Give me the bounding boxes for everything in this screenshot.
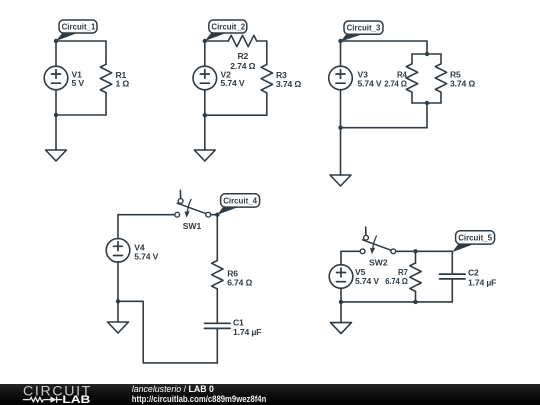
label Circuit_1 [56, 20, 97, 41]
value label C1 [233, 318, 261, 337]
node parallel top circuit 3 [425, 52, 429, 56]
label Circuit_4 [217, 194, 259, 215]
svg-text:1 Ω: 1 Ω [116, 79, 130, 89]
wire right rail circuit 4 [216, 215, 218, 261]
svg-text:Circuit_5: Circuit_5 [458, 233, 492, 243]
svg-text:3.74 Ω: 3.74 Ω [450, 79, 475, 89]
value label R3 [276, 70, 301, 89]
node switch output circuit 4 [215, 213, 219, 217]
resistor R2 [228, 35, 256, 46]
value label C2 [468, 267, 496, 287]
label Circuit_2 [205, 20, 247, 41]
voltage source V3 [329, 41, 353, 128]
svg-text:6.74 Ω: 6.74 Ω [227, 277, 252, 287]
wire bottom rail circuit 1 [56, 114, 106, 116]
wire bottom rail circuit 2 [205, 114, 267, 116]
node parallel bottom circuit 3 [425, 101, 429, 105]
capacitor C1 [205, 323, 231, 328]
wire bottom rail circuit 5 [341, 301, 452, 303]
svg-text:Circuit_4: Circuit_4 [223, 196, 257, 206]
node bottom-left circuit 3 [338, 126, 342, 130]
value label R2 [230, 51, 255, 71]
svg-text:5.74 V: 5.74 V [134, 251, 158, 261]
wire top-left circuit 5 [340, 288, 342, 302]
wire C1 down circuit 4 [216, 328, 218, 363]
svg-text:1.74 µF: 1.74 µF [468, 278, 496, 288]
wire switch to C2 rail circuit 5 [396, 250, 453, 252]
svg-text:3.74 Ω: 3.74 Ω [276, 79, 301, 89]
resistor R6 [212, 261, 223, 289]
svg-text:2.74 Ω: 2.74 Ω [384, 79, 407, 89]
svg-text:5.74 V: 5.74 V [221, 78, 245, 88]
wire right rail top circuit 2 [266, 41, 268, 65]
svg-text:6.74 Ω: 6.74 Ω [385, 276, 408, 286]
value label R4 [384, 70, 407, 89]
ground circuit 1 [46, 115, 67, 161]
value label V4 [134, 242, 158, 261]
svg-text:Circuit_3: Circuit_3 [347, 23, 381, 33]
wire top-left circuit 2 [205, 40, 229, 42]
wire R6 to C1 circuit 4 [216, 289, 218, 323]
logo resistor-diode line [23, 396, 62, 402]
node R7 bottom circuit 5 [413, 300, 417, 304]
svg-text:5.74 V: 5.74 V [355, 276, 379, 286]
wire bottom rail circuit 4 [118, 301, 217, 363]
label Circuit_3 [341, 21, 384, 42]
wire switch to node circuit 4 [211, 214, 218, 216]
wire right feed circuit 3 [426, 41, 428, 54]
value label V2 [221, 70, 245, 89]
ground circuit 2 [194, 115, 215, 161]
svg-text:5 V: 5 V [72, 78, 85, 88]
node top-left circuit 3 [338, 39, 342, 43]
svg-text:SW2: SW2 [369, 258, 388, 268]
resistor R3 [261, 65, 272, 93]
switch SW1 [175, 190, 211, 217]
wire top-right circuit 2 [257, 40, 267, 42]
wire right rail bottom circuit 1 [105, 93, 107, 115]
value label V3 [358, 70, 382, 89]
node R7 top circuit 5 [413, 249, 417, 253]
value label V1 [72, 70, 85, 89]
node bottom-left circuit 2 [203, 113, 207, 117]
wire right rail top circuit 1 [105, 41, 107, 64]
wire parallel top bar circuit 3 [412, 53, 441, 55]
capacitor C2 [440, 274, 466, 279]
wire bottom rail circuit 3 [341, 127, 428, 129]
svg-text:Circuit_2: Circuit_2 [211, 22, 245, 32]
node top-left circuit 2 [203, 39, 207, 43]
svg-text:1.74 µF: 1.74 µF [233, 327, 261, 337]
value label R6 [227, 268, 252, 287]
resistor R1 [100, 64, 111, 92]
wire top rail circuit 1 [56, 40, 106, 42]
resistor R4 [406, 54, 417, 103]
node bottom-left circuit 1 [54, 113, 58, 117]
wire C2 rail top circuit 5 [451, 251, 453, 274]
voltage source V4 [106, 215, 130, 302]
value label V5 [355, 267, 379, 286]
node bottom-left circuit 4 [116, 299, 120, 303]
svg-text:R2: R2 [237, 51, 248, 61]
svg-text:C2: C2 [468, 267, 479, 277]
wire right drop circuit 3 [426, 103, 428, 128]
svg-text:Circuit_1: Circuit_1 [62, 22, 96, 32]
svg-text:http://circuitlab.com/c889m9we: http://circuitlab.com/c889m9wez8f4n [132, 394, 266, 404]
wire right rail bottom circuit 2 [266, 93, 268, 115]
resistor R5 [435, 54, 446, 103]
svg-text:LAB: LAB [62, 394, 90, 405]
voltage source V2 [193, 41, 217, 115]
ground circuit 3 [330, 128, 351, 186]
wire top rail circuit 4 [118, 214, 175, 216]
svg-text:2.74 Ω: 2.74 Ω [230, 61, 255, 71]
voltage source V5 [329, 251, 353, 288]
wire top rail circuit 3 [341, 40, 428, 42]
voltage source V1 [44, 41, 68, 115]
svg-text:5.74 V: 5.74 V [358, 79, 382, 89]
node top-left circuit 1 [54, 39, 58, 43]
ground circuit 5 [331, 302, 352, 334]
svg-text:lancelusterio / LAB 0: lancelusterio / LAB 0 [132, 384, 214, 394]
wire parallel bottom bar circuit 3 [412, 102, 441, 104]
svg-text:SW1: SW1 [183, 221, 202, 231]
value label R5 [450, 70, 475, 89]
node bottom-left circuit 5 [339, 300, 343, 304]
value label R7 [385, 267, 408, 286]
label Circuit_5 [452, 231, 494, 252]
wire V5 top to switch circuit 5 [341, 250, 360, 252]
ground circuit 4 [108, 301, 129, 333]
wire C2 rail bottom circuit 5 [451, 279, 453, 302]
switch SW2 [360, 227, 395, 254]
resistor R7 [410, 251, 421, 302]
value label R1 [116, 70, 130, 89]
